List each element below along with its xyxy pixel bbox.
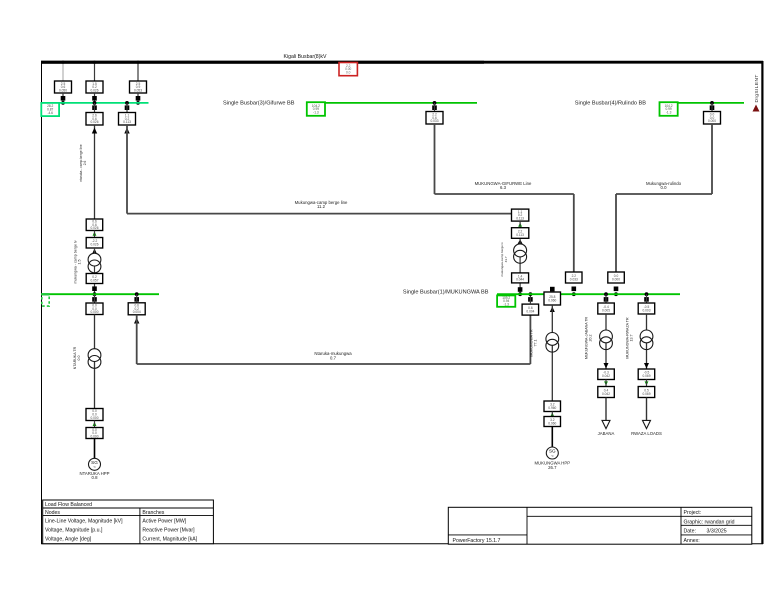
switch line2 top <box>125 105 130 110</box>
wire feeder 1 upper <box>62 63 64 81</box>
wire MUKUNGWA-GIFURWE line v2 <box>573 194 575 272</box>
switch feeder 3 <box>136 96 141 101</box>
result box rwaza low <box>638 387 655 398</box>
wire Ntaruka-mukungwa v1 <box>136 315 138 364</box>
svg-text:Line-Line Voltage, Magnitude [: Line-Line Voltage, Magnitude [kV] <box>45 519 123 525</box>
flow arrow camp berge lv <box>92 249 97 255</box>
wire mukungwa gen mid wire <box>551 412 553 417</box>
generator MUKUNGWA HPP <box>546 447 558 459</box>
result box feeder 2 <box>86 81 103 93</box>
svg-text:0.000: 0.000 <box>708 119 716 123</box>
wire feeder 1 lower <box>62 93 64 103</box>
flow arrow ntk-muk <box>134 318 139 324</box>
result box jabana low <box>598 387 615 398</box>
svg-text:0.005: 0.005 <box>602 308 610 312</box>
flow arrow camp berge tr <box>517 239 522 244</box>
wire jabana mid wire <box>605 380 607 387</box>
wire rulindo feeder stub <box>711 103 713 112</box>
node dot jabana bus <box>604 292 608 296</box>
label JABANA <box>598 431 615 436</box>
node dot line2 bus <box>125 101 129 105</box>
busbar Kigali Busbar (top) <box>41 61 484 64</box>
svg-text:0.113: 0.113 <box>516 217 524 221</box>
switch gifurwe feeder <box>432 105 437 110</box>
transformer mukungwa-camp berge <box>514 244 527 263</box>
switch mukungwa gen top <box>550 287 555 292</box>
switch feeder 2 <box>92 96 97 101</box>
wire Mukungwa-rulindo line h <box>616 193 712 195</box>
svg-text:20.2: 20.2 <box>589 335 593 342</box>
svg-text:Single Busbar(1)/MUKUNGWA BB: Single Busbar(1)/MUKUNGWA BB <box>403 290 489 296</box>
svg-text:0.960: 0.960 <box>548 421 556 425</box>
svg-text:Project:: Project: <box>684 510 702 516</box>
switch ntaruka tr top <box>92 297 97 302</box>
wire feeder 3 upper <box>137 63 139 81</box>
wire rwaza mid wire <box>646 380 648 387</box>
svg-text:-1.3: -1.3 <box>313 111 319 115</box>
busbar Rulindo BB <box>660 102 745 104</box>
wire camp berge chain 2 <box>519 239 521 294</box>
green arrow jabana <box>604 381 608 385</box>
green arrow rwaza <box>645 381 649 385</box>
load JABANA <box>602 420 610 428</box>
svg-text:1.5: 1.5 <box>78 260 82 265</box>
label RWAZA LOADS <box>631 431 662 436</box>
wire jabana stub <box>605 294 607 303</box>
wire jabana upper <box>605 314 607 369</box>
result box camp berge line end <box>512 209 529 221</box>
switch jabana top <box>604 297 609 302</box>
svg-text:6.3: 6.3 <box>500 185 507 190</box>
wire mukungwa gen lower <box>551 427 553 448</box>
svg-text:~: ~ <box>551 453 554 458</box>
result box ntk-muk right <box>522 304 539 315</box>
svg-text:0.057: 0.057 <box>91 278 99 282</box>
wire ntaruka - camp berge line <box>94 125 96 219</box>
result box line1 top <box>86 113 103 126</box>
busbar camp berge (top left) <box>41 102 149 104</box>
node dot ntk-muk right bus <box>529 292 533 296</box>
svg-text:Date:: Date: <box>684 529 696 535</box>
busbar Gifurwe BB <box>307 102 477 104</box>
svg-text:0.000: 0.000 <box>91 310 99 314</box>
node dot camp berge lv bus <box>93 292 97 296</box>
wire rwaza stub <box>646 294 648 303</box>
label MUKUNGWA-JABANA TR <box>585 316 593 359</box>
switch gifurwe line end <box>572 287 577 292</box>
wire mukungwa-camp berge line horizontal <box>127 213 520 215</box>
wire ntaruka tr stub <box>94 294 96 303</box>
result box mukungwa gen low <box>544 417 561 427</box>
node dot feeder2 bus <box>93 101 97 105</box>
svg-text:0.042: 0.042 <box>602 374 610 378</box>
label MUKUNGWA HPP <box>534 461 570 470</box>
switch ntk-muk left <box>134 297 139 302</box>
label Mukungwa-camp berge line <box>295 200 348 209</box>
result box ntk-muk left <box>128 303 145 315</box>
load RWAZA LOADS <box>643 420 651 428</box>
wire rwaza lower <box>646 398 648 421</box>
transformer MUKUNGWA-RWAZA TR <box>640 330 653 350</box>
result box line2 top <box>119 113 136 126</box>
node dot feeder2 top <box>93 61 96 64</box>
generator NTARUKA HPP <box>89 458 101 470</box>
result box mukungwa gen bus <box>544 292 561 305</box>
svg-text:~: ~ <box>93 465 96 470</box>
svg-text:Branches: Branches <box>142 510 164 516</box>
label Ntaruka-mukungwa <box>314 351 352 360</box>
busbar MUKUNGWA BB <box>497 293 680 295</box>
wire mukungwa gen upper <box>551 305 553 401</box>
label Kigali Busbar <box>284 54 327 60</box>
label Single Busbar(1)/MUKUNGWA BB <box>403 290 489 296</box>
result box rulindo feeder <box>704 112 721 125</box>
svg-text:Single Busbar(4)/Rulindo BB: Single Busbar(4)/Rulindo BB <box>575 101 646 107</box>
svg-text:Nodes: Nodes <box>45 510 60 516</box>
svg-text:Reactive Power [Mvar]: Reactive Power [Mvar] <box>142 528 195 534</box>
svg-text:0.050: 0.050 <box>59 89 67 93</box>
result box camp berge tr bottom <box>512 273 529 283</box>
wire feeder 2 upper <box>94 63 96 81</box>
svg-text:-4.6: -4.6 <box>47 111 53 115</box>
node dot camp berge mukungwa bus <box>518 292 522 296</box>
svg-text:Single Busbar(3)/Gifurwe BB: Single Busbar(3)/Gifurwe BB <box>223 101 295 107</box>
transformer MUKUNGWA TR <box>546 333 559 353</box>
flow arrow jabana <box>604 363 609 369</box>
wire ntk-muk right stub <box>529 294 531 304</box>
label ntaruka - camp berge line <box>79 144 87 182</box>
wire camp berge lv upper <box>94 231 96 238</box>
result box gifurwe line end <box>566 272 583 283</box>
node dot feeder3 top <box>136 61 139 64</box>
svg-text:2.6: 2.6 <box>83 161 87 166</box>
switch camp berge chain <box>518 287 523 292</box>
label Single Busbar(4)/Rulindo BB <box>575 101 646 107</box>
label MUKUNGWA-GIFURWE Line <box>475 181 532 190</box>
green arrow camp berge chain <box>518 222 522 226</box>
result box rwaza mid <box>638 369 655 380</box>
svg-text:PowerFactory 15.1.7: PowerFactory 15.1.7 <box>453 538 501 544</box>
switch line1 top <box>92 105 97 110</box>
busbar left section <box>41 293 159 295</box>
svg-text:Active Power [MW]: Active Power [MW] <box>142 519 186 525</box>
voltage result box Gifurwe <box>307 102 325 116</box>
svg-text:Voltage, Magnitude [p.u.]: Voltage, Magnitude [p.u.] <box>45 528 103 534</box>
switch rwaza top <box>644 297 649 302</box>
svg-text:0.026: 0.026 <box>91 243 99 247</box>
svg-text:0.113: 0.113 <box>123 120 131 124</box>
wire line2 stub <box>126 103 128 113</box>
svg-text:DIgSILENT: DIgSILENT <box>754 74 760 102</box>
result box jabana top <box>598 303 615 314</box>
switch rulindo line end <box>614 287 619 292</box>
wire feeder 3 lower <box>137 93 139 103</box>
node dot rwaza bus <box>645 292 649 296</box>
wire line1 stub <box>94 103 96 113</box>
wire Mukungwa-rulindo line v2 <box>615 194 617 272</box>
green arrow camp berge lv <box>93 231 97 235</box>
node dot rulindo line mukungwa bus <box>614 292 618 296</box>
svg-text:Graphic: rwandan grid: Graphic: rwandan grid <box>684 519 735 525</box>
node dot feeder1 bus <box>61 101 65 105</box>
svg-text:Load Flow Balanced: Load Flow Balanced <box>45 502 92 508</box>
result box line1 bottom <box>86 219 103 231</box>
svg-text:3/3/2025: 3/3/2025 <box>707 529 727 535</box>
svg-text:43.7: 43.7 <box>504 256 508 262</box>
transformer MUKUNGWA-JABANA TR <box>600 330 613 350</box>
svg-text:0.7: 0.7 <box>330 356 337 361</box>
svg-text:RWAZA LOADS: RWAZA LOADS <box>631 431 662 436</box>
node dot line1 bus <box>93 101 97 105</box>
wire camp berge chain 1 <box>519 221 521 228</box>
switch ntk-muk right <box>528 297 533 302</box>
label Single Busbar(3)/Gifurwe BB <box>223 101 295 107</box>
label MUKUNGWA-RWAZA TR <box>626 317 634 359</box>
result box camp berge lv bottom <box>86 274 103 284</box>
svg-text:0.113: 0.113 <box>516 233 524 237</box>
svg-text:Annex:: Annex: <box>684 538 700 544</box>
switch camp berge lv <box>92 286 97 291</box>
result box ntaruka tr top <box>86 303 103 315</box>
result box jabana mid <box>598 369 615 380</box>
wire ntk-muk left stub <box>136 294 138 303</box>
svg-text:0.053: 0.053 <box>134 89 142 93</box>
svg-text:Current, Magnitude [kA]: Current, Magnitude [kA] <box>142 537 197 543</box>
svg-text:0.026: 0.026 <box>91 89 99 93</box>
svg-text:-1.3: -1.3 <box>503 303 509 307</box>
svg-text:0.026: 0.026 <box>91 120 99 124</box>
result box feeder 1 <box>55 81 72 93</box>
svg-text:0.0: 0.0 <box>77 356 81 361</box>
voltage result box left (dashed mint) <box>41 294 49 306</box>
svg-text:-1.3: -1.3 <box>666 111 672 115</box>
result box gifurwe feeder <box>426 112 443 125</box>
node dot rulindo feeder <box>710 101 714 105</box>
wire MUKUNGWA-GIFURWE line h <box>435 193 574 195</box>
result box ntaruka gen top <box>86 409 103 421</box>
svg-text:77.1: 77.1 <box>534 340 538 347</box>
svg-text:Voltage, Angle [deg]: Voltage, Angle [deg] <box>45 537 92 543</box>
voltage result box MUKUNGWA <box>497 295 515 306</box>
node dot feeder1 top <box>61 61 64 64</box>
result box camp berge tr top <box>512 228 529 239</box>
wire camp berge lv mid <box>94 248 96 294</box>
svg-text:0.960: 0.960 <box>548 406 556 410</box>
svg-text:0.033: 0.033 <box>570 277 578 281</box>
result box rulindo line end <box>608 272 625 283</box>
label NTARUKA HPP <box>79 471 109 480</box>
flow arrow rwaza <box>644 363 649 369</box>
wire rwaza upper <box>646 314 648 369</box>
label Mukungwa-rulindo <box>646 181 682 190</box>
svg-text:JABANA: JABANA <box>598 431 615 436</box>
svg-text:0.003: 0.003 <box>643 308 651 312</box>
svg-text:0.042: 0.042 <box>602 392 610 396</box>
label MUKUNGWA TR <box>530 329 538 357</box>
wire gifurwe feeder stub <box>434 103 436 112</box>
node dot gifurwe feeder <box>433 101 437 105</box>
wire MUKUNGWA-GIFURWE line v1 <box>434 124 436 194</box>
wire mukungwa-camp berge line vertical <box>126 125 128 214</box>
svg-text:0.0: 0.0 <box>346 71 351 75</box>
wire Mukungwa-rulindo line v1 <box>711 124 713 194</box>
green arrow mukungwa gen <box>550 412 554 416</box>
voltage result box Kigali (red) <box>339 63 357 76</box>
flow arrow line1 <box>92 128 97 134</box>
wire ntaruka gen mid <box>94 421 96 428</box>
wire ntaruka tr upper <box>94 315 96 409</box>
node dot feeder3 bus <box>136 101 140 105</box>
switch feeder 1 <box>61 96 66 101</box>
DIgSILENT logo <box>753 74 761 111</box>
flow arrow line2 <box>124 128 129 134</box>
svg-text:Kigali Busbar(8)kV: Kigali Busbar(8)kV <box>284 54 327 60</box>
label mukungwa-camp berge lv 43.7 <box>500 242 508 277</box>
label NTARUKA TR <box>73 346 81 369</box>
svg-text:0.000: 0.000 <box>612 277 620 281</box>
svg-text:26.7: 26.7 <box>548 465 557 470</box>
flow arrow mukungwa gen <box>550 307 555 313</box>
wire feeder 2 lower <box>94 93 96 103</box>
switch rulindo feeder <box>710 105 715 110</box>
voltage result box camp berge (mint) <box>41 103 59 116</box>
svg-text:0.069: 0.069 <box>643 374 651 378</box>
transformer mukungwa - camp berge lv <box>88 253 101 273</box>
svg-text:0.8: 0.8 <box>92 475 99 480</box>
result box mukungwa gen mid <box>544 401 561 412</box>
green arrow ntaruka gen <box>93 422 97 426</box>
transformer NTARUKA TR <box>88 349 101 369</box>
svg-text:0.026: 0.026 <box>91 226 99 230</box>
legend table <box>43 500 214 544</box>
result box camp berge lv top <box>86 238 103 249</box>
node dot gifurwe line mukungwa bus <box>572 292 576 296</box>
result box rwaza top <box>638 303 655 314</box>
wire Ntaruka-mukungwa v2 <box>529 315 531 364</box>
svg-text:0.000: 0.000 <box>91 416 99 420</box>
svg-text:0.004: 0.004 <box>526 309 534 313</box>
label mukungwa - camp berge lv <box>74 240 82 283</box>
svg-text:0.960: 0.960 <box>548 298 556 302</box>
result box feeder 3 <box>130 81 147 93</box>
svg-text:0.004: 0.004 <box>133 310 141 314</box>
svg-text:0.033: 0.033 <box>431 119 439 123</box>
svg-text:13.7: 13.7 <box>630 335 634 342</box>
title block <box>448 507 752 544</box>
svg-text:0.044: 0.044 <box>516 278 524 282</box>
wire Ntaruka-mukungwa h <box>137 363 531 365</box>
wire ntaruka gen lower <box>94 439 96 459</box>
node dot ntk-muk left bus <box>135 292 139 296</box>
svg-text:0.000: 0.000 <box>91 434 99 438</box>
result box ntaruka gen bottom <box>86 428 103 439</box>
svg-text:0.069: 0.069 <box>643 392 651 396</box>
svg-text:0.0: 0.0 <box>661 185 668 190</box>
wire jabana lower <box>605 398 607 421</box>
svg-text:11.2: 11.2 <box>317 204 326 209</box>
voltage result box Rulindo <box>660 102 678 116</box>
